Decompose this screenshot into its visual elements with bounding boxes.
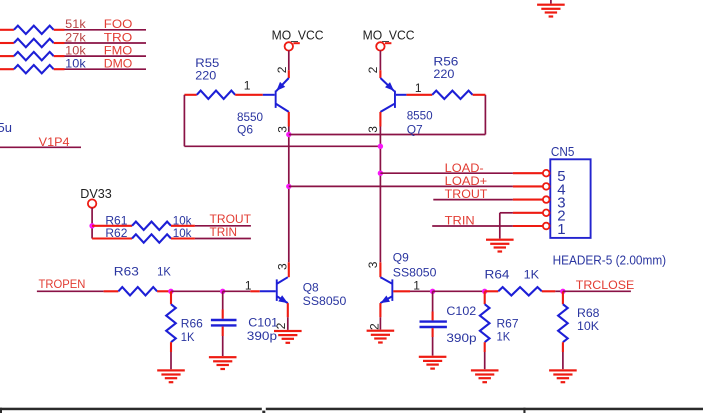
wire TRIN (R62) xyxy=(195,238,251,240)
pin 5 of CN5 xyxy=(543,168,566,185)
resistor 10k row 4 xyxy=(0,65,65,73)
svg-text:TRO: TRO xyxy=(104,30,133,44)
svg-text:TRIN: TRIN xyxy=(445,214,475,228)
power port MO_VCC (Q7) xyxy=(363,28,415,42)
svg-text:3: 3 xyxy=(275,263,289,270)
wire net FOO xyxy=(65,29,147,31)
pin 1 of CN5 xyxy=(543,221,566,238)
svg-text:1K: 1K xyxy=(497,330,511,344)
junction R67 tap xyxy=(482,289,487,294)
svg-text:2: 2 xyxy=(366,66,380,73)
svg-text:SS8050: SS8050 xyxy=(393,265,437,279)
junction C102 tap xyxy=(430,289,435,294)
wire LOAD+ xyxy=(289,185,543,187)
svg-text:1: 1 xyxy=(413,279,420,293)
resistor R66 xyxy=(166,291,176,352)
wire R66 to ground xyxy=(170,352,172,369)
wire TROUT (R61) xyxy=(195,225,251,227)
ground (CN5 pin 2) xyxy=(486,239,514,253)
pin 2 of CN5 xyxy=(543,208,566,225)
svg-text:1: 1 xyxy=(415,81,422,95)
junction LOAD- tap xyxy=(378,171,383,176)
svg-text:220: 220 xyxy=(195,69,216,83)
junction R63 / R66 xyxy=(168,289,173,294)
wire LOAD- xyxy=(380,172,543,174)
ground (C102) xyxy=(419,356,447,370)
svg-text:SS8050: SS8050 xyxy=(303,294,347,308)
wire upper bus (Q6 collector to R56) xyxy=(289,95,486,135)
svg-text:TROUT: TROUT xyxy=(445,187,488,201)
resistor 51k row 1 xyxy=(0,26,65,34)
wire C101 to Q8 base xyxy=(223,290,260,292)
svg-text:R66: R66 xyxy=(181,317,203,331)
wire net FMO xyxy=(65,55,147,57)
resistor 27k row 2 xyxy=(0,39,65,47)
pin 4 of CN5 xyxy=(543,181,566,198)
svg-text:10k: 10k xyxy=(65,44,87,58)
wire Q8 emitter to ground xyxy=(287,303,289,330)
svg-text:2: 2 xyxy=(275,66,289,73)
svg-text:V1P4: V1P4 xyxy=(39,135,70,149)
wire R55 left to lower bus xyxy=(183,95,185,147)
svg-text:1K: 1K xyxy=(157,264,171,278)
junction lower bus / Q7 collector xyxy=(378,144,383,149)
transistor Q8 SS8050 (NPN) xyxy=(260,277,288,303)
connector CN5 xyxy=(550,159,590,238)
transistor Q7 8550 (PNP, mirrored) xyxy=(380,78,406,112)
ground (R67) xyxy=(471,369,499,383)
svg-text:R68: R68 xyxy=(577,306,600,320)
ground (top right) xyxy=(550,0,552,4)
resistor 10k row 3 xyxy=(0,52,65,60)
svg-text:5u: 5u xyxy=(0,120,12,135)
svg-text:C102: C102 xyxy=(446,304,476,318)
svg-text:2: 2 xyxy=(367,323,381,330)
capacitor C101 xyxy=(211,291,237,356)
junction C101 tap xyxy=(220,289,225,294)
svg-text:10K: 10K xyxy=(577,319,599,333)
ground (Q8) xyxy=(274,330,302,344)
svg-text:HEADER-5 (2.00mm): HEADER-5 (2.00mm) xyxy=(553,253,667,268)
svg-text:Q9: Q9 xyxy=(393,251,409,265)
wire net DMO xyxy=(65,68,147,70)
svg-text:220: 220 xyxy=(433,67,454,81)
svg-text:10k: 10k xyxy=(65,57,87,71)
svg-text:1: 1 xyxy=(245,279,252,293)
wire TRCLOSE xyxy=(563,290,631,292)
svg-text:FOO: FOO xyxy=(104,17,133,31)
svg-text:1: 1 xyxy=(244,79,251,93)
svg-text:1K: 1K xyxy=(524,268,540,282)
resistor R56 xyxy=(406,91,485,99)
svg-text:Q8: Q8 xyxy=(303,280,319,294)
wire R68 to ground xyxy=(562,352,564,369)
svg-text:DV33: DV33 xyxy=(80,186,112,201)
svg-text:MO_VCC: MO_VCC xyxy=(363,28,415,42)
svg-text:1: 1 xyxy=(557,221,565,238)
wire MO_VCC to Q7 emitter xyxy=(379,51,381,78)
wire lower bus (R55 to Q7 collector) xyxy=(184,145,380,147)
svg-text:R67: R67 xyxy=(497,317,519,331)
wire Q7 collector down xyxy=(379,112,381,277)
svg-text:1K: 1K xyxy=(181,330,195,344)
ground (R66) xyxy=(157,369,185,383)
wire R64 to R68 xyxy=(555,290,563,292)
wire R67 to ground xyxy=(484,352,486,369)
svg-text:R63: R63 xyxy=(114,264,139,278)
svg-text:R64: R64 xyxy=(485,268,510,282)
svg-text:CN5: CN5 xyxy=(551,144,575,159)
wire C102 to R67 xyxy=(433,290,485,292)
junction LOAD+ tap xyxy=(286,184,291,189)
ground (R68) xyxy=(549,369,577,383)
svg-text:MO_VCC: MO_VCC xyxy=(272,28,324,42)
svg-text:390p: 390p xyxy=(446,331,477,345)
svg-text:2: 2 xyxy=(274,322,288,329)
svg-text:3: 3 xyxy=(275,126,289,133)
svg-text:Q7: Q7 xyxy=(407,122,423,136)
transistor Q9 SS8050 (NPN, mirrored) xyxy=(380,277,393,303)
junction DV33 / R61 xyxy=(89,223,94,228)
wire TROPEN xyxy=(37,290,119,292)
svg-text:TRCLOSE: TRCLOSE xyxy=(576,278,635,292)
svg-text:LOAD+: LOAD+ xyxy=(445,174,488,188)
wire net TRO xyxy=(65,42,147,44)
svg-text:390p: 390p xyxy=(247,329,278,343)
wire V1P4 xyxy=(0,146,81,148)
pin 3 of CN5 xyxy=(543,195,566,212)
wire Q6 collector down xyxy=(288,112,290,277)
ground (C101) xyxy=(209,356,237,370)
resistor R64 xyxy=(485,287,556,295)
svg-text:FMO: FMO xyxy=(104,44,133,58)
svg-text:27k: 27k xyxy=(65,30,87,44)
wire Q9 emitter to ground xyxy=(379,303,381,329)
svg-text:TROPEN: TROPEN xyxy=(39,277,86,291)
svg-text:DMO: DMO xyxy=(104,57,133,71)
wire Q9 base to C102 xyxy=(393,290,432,292)
wire TROUT (to CN5 pin 3) xyxy=(433,199,543,201)
svg-text:10k: 10k xyxy=(173,226,193,240)
resistor R55 xyxy=(184,91,262,99)
wire DV33 down to R61/R62 xyxy=(91,208,93,239)
power port DV33 xyxy=(80,186,112,201)
wire CN5 pin 2 to ground xyxy=(500,213,543,239)
svg-text:R62: R62 xyxy=(105,226,127,240)
resistor R61 xyxy=(92,222,195,230)
svg-text:TRIN: TRIN xyxy=(210,225,238,239)
svg-text:3: 3 xyxy=(366,126,380,133)
resistor R63 xyxy=(118,287,170,295)
svg-text:3: 3 xyxy=(366,261,380,268)
svg-text:8550: 8550 xyxy=(407,108,433,122)
wire R63 to C101 xyxy=(171,290,223,292)
resistor R68 xyxy=(558,291,568,352)
resistor R67 xyxy=(480,291,490,352)
junction Q6 collector / upper bus xyxy=(286,132,291,137)
capacitor C102 xyxy=(420,291,447,355)
wire TRIN (to CN5 pin 1) xyxy=(432,225,543,227)
transistor Q6 8550 (PNP) xyxy=(263,78,289,112)
svg-text:51k: 51k xyxy=(65,17,87,31)
ground (Q9) xyxy=(367,330,395,344)
resistor R62 xyxy=(92,234,195,242)
power port MO_VCC (Q6) xyxy=(272,28,324,42)
svg-text:LOAD-: LOAD- xyxy=(445,161,484,175)
junction R68 / TRCLOSE xyxy=(560,289,565,294)
svg-text:Q6: Q6 xyxy=(237,122,253,136)
wire MO_VCC to Q6 emitter xyxy=(288,51,290,78)
